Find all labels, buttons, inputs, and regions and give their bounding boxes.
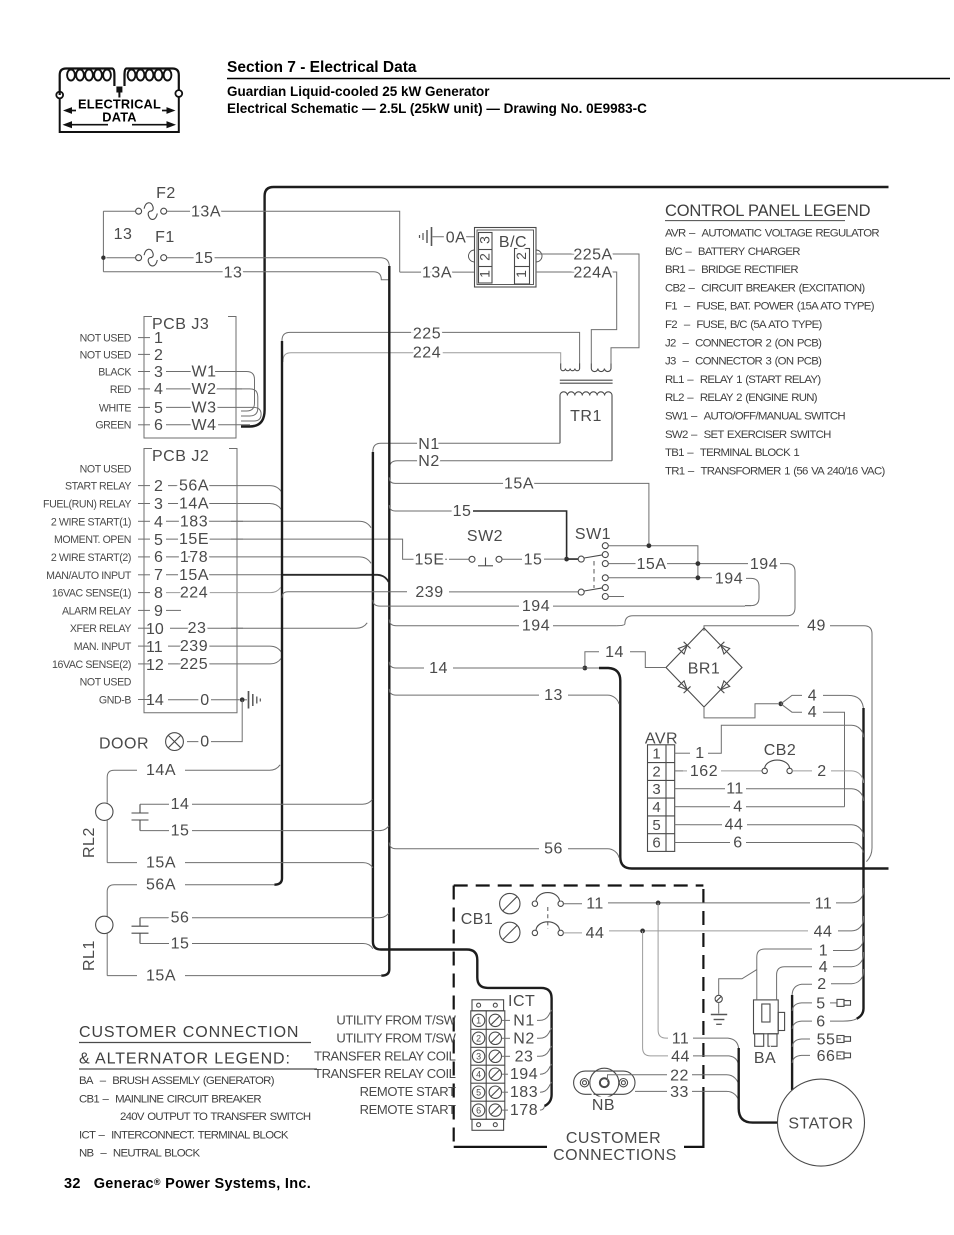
svg-text:WHITE: WHITE xyxy=(99,402,131,414)
svg-text:6: 6 xyxy=(652,835,660,852)
svg-text:F1: F1 xyxy=(155,229,175,246)
wire 15E to SW2 xyxy=(410,558,447,560)
B/C connector 12 xyxy=(515,249,530,285)
wire W4 xyxy=(166,424,250,426)
wire 239 row xyxy=(282,592,407,598)
svg-text:CONNECTIONS: CONNECTIONS xyxy=(553,1147,677,1164)
svg-text:13: 13 xyxy=(224,265,243,282)
svg-text:3: 3 xyxy=(477,236,493,244)
svg-text:N2: N2 xyxy=(513,1030,534,1047)
svg-text:16VAC SENSE(2): 16VAC SENSE(2) xyxy=(52,659,131,671)
svg-text:CB2 – CIRCUIT BREAKER (EXCITA: CB2 – CIRCUIT BREAKER (EXCITATION) xyxy=(665,282,865,294)
svg-text:225: 225 xyxy=(180,656,208,673)
svg-text:15: 15 xyxy=(524,551,543,568)
svg-text:TR1: TR1 xyxy=(570,408,602,425)
svg-text:STATOR: STATOR xyxy=(788,1116,853,1133)
svg-text:13: 13 xyxy=(544,687,563,704)
diode bottom-left xyxy=(678,680,691,693)
node 13 left vertical xyxy=(102,211,104,272)
wire 194 row a xyxy=(373,600,519,606)
ICT wire 178 xyxy=(502,1109,509,1111)
wire SW1 c6 stub xyxy=(608,596,624,598)
J3 pin ticks left xyxy=(138,338,242,425)
AVR connector block xyxy=(648,745,675,852)
svg-text:REMOTE START: REMOTE START xyxy=(360,1084,456,1099)
wire 13 row xyxy=(389,689,539,695)
wire 225A xyxy=(536,254,639,364)
svg-text:RL1 – RELAY 1 (START RELAY): RL1 – RELAY 1 (START RELAY) xyxy=(665,374,821,386)
svg-text:W1: W1 xyxy=(192,364,217,381)
wire 14 to BR1 xyxy=(630,652,666,668)
svg-text:183: 183 xyxy=(180,513,208,530)
SW1 dashed link xyxy=(593,561,595,588)
BR1 bottom path to dot xyxy=(704,704,778,718)
svg-text:3: 3 xyxy=(154,364,163,381)
svg-text:CB1 – MAINLINE CIRCUIT BREAKE: CB1 – MAINLINE CIRCUIT BREAKER xyxy=(79,1094,261,1106)
logo right coil xyxy=(125,69,179,91)
TR1 primary winding right xyxy=(591,364,611,372)
wire 183 J2 xyxy=(166,521,371,527)
svg-text:3: 3 xyxy=(652,781,660,798)
svg-text:N1: N1 xyxy=(513,1012,534,1029)
svg-text:2: 2 xyxy=(652,764,660,781)
svg-text:2: 2 xyxy=(154,478,163,495)
svg-text:44: 44 xyxy=(725,817,744,834)
svg-text:194: 194 xyxy=(750,556,778,573)
wire CB1 11 xyxy=(563,903,582,905)
svg-text:14: 14 xyxy=(605,644,624,661)
svg-text:BA: BA xyxy=(754,1050,776,1067)
wire 22 xyxy=(608,1075,668,1082)
wire 225 J2 xyxy=(168,659,281,664)
logo side verticals xyxy=(59,98,61,133)
bridge rectifier BR1 diamond xyxy=(666,628,742,707)
wire 15A upper row xyxy=(389,477,649,543)
svg-text:Section 7 - Electrical Data: Section 7 - Electrical Data xyxy=(227,59,417,76)
svg-text:55: 55 xyxy=(817,1032,836,1049)
RL2 contact symbol xyxy=(132,804,149,830)
svg-text:0A: 0A xyxy=(446,229,467,246)
TR1 core xyxy=(560,379,613,381)
svg-text:4: 4 xyxy=(808,687,817,704)
svg-text:224: 224 xyxy=(180,585,208,602)
svg-text:14: 14 xyxy=(146,692,164,709)
svg-text:56: 56 xyxy=(171,910,190,927)
wire AVR4 4 xyxy=(690,806,730,808)
wire RL1 15A xyxy=(107,975,137,977)
svg-text:6: 6 xyxy=(733,835,742,852)
svg-text:2 WIRE START(1): 2 WIRE START(1) xyxy=(51,516,131,528)
ICT wire 23 xyxy=(502,1055,511,1057)
svg-text:& ALTERNATOR LEGEND:: & ALTERNATOR LEGEND: xyxy=(79,1051,291,1068)
wire 194 row b xyxy=(389,620,519,626)
svg-text:23: 23 xyxy=(515,1048,534,1065)
svg-text:SW1 – AUTO/OFF/MANUAL SWITCH: SW1 – AUTO/OFF/MANUAL SWITCH xyxy=(665,411,845,423)
header rule xyxy=(227,78,950,80)
svg-text:SW2: SW2 xyxy=(467,528,503,545)
svg-text:2: 2 xyxy=(477,253,493,261)
svg-text:NOT USED: NOT USED xyxy=(80,464,132,476)
wire N1 xyxy=(373,443,560,453)
svg-text:4: 4 xyxy=(154,381,163,398)
svg-text:MAN/AUTO INPUT: MAN/AUTO INPUT xyxy=(46,570,132,582)
svg-text:W4: W4 xyxy=(192,417,217,434)
svg-text:NOT USED: NOT USED xyxy=(80,333,132,345)
wire RL2 15A xyxy=(107,862,137,864)
svg-text:Electrical Schematic — 2.5L (2: Electrical Schematic — 2.5L (25kW unit) … xyxy=(227,101,647,116)
svg-text:3: 3 xyxy=(154,496,163,513)
ICT wire N1 xyxy=(502,1019,511,1021)
wire 14 into bundle (thick start) xyxy=(586,667,601,669)
svg-text:178: 178 xyxy=(180,549,208,566)
svg-text:225: 225 xyxy=(413,326,441,343)
wire RL2 14 xyxy=(140,803,169,805)
svg-text:11: 11 xyxy=(146,639,163,656)
CB1 pole 1 xyxy=(500,893,564,914)
svg-text:MAN. INPUT: MAN. INPUT xyxy=(74,641,132,653)
stator bundle vertical xyxy=(791,995,793,1090)
wire 44 down xyxy=(643,931,668,1056)
switch SW2 xyxy=(469,556,502,566)
svg-text:1: 1 xyxy=(513,270,529,278)
wire AVR6 6 xyxy=(690,842,730,844)
wire 224A xyxy=(536,272,617,364)
svg-text:1: 1 xyxy=(695,745,704,762)
svg-text:5: 5 xyxy=(154,400,163,417)
wire CB1 44 xyxy=(563,932,582,934)
svg-text:AVR – AUTOMATIC VOLTAGE REGUL: AVR – AUTOMATIC VOLTAGE REGULATOR xyxy=(665,228,879,240)
svg-text:6: 6 xyxy=(816,1014,825,1031)
svg-text:194: 194 xyxy=(522,598,550,615)
ground link to brush xyxy=(719,970,757,996)
diode bottom-right xyxy=(717,680,730,693)
svg-text:GND-B: GND-B xyxy=(99,695,131,707)
wire 0A to B/C xyxy=(433,236,475,238)
svg-text:DATA: DATA xyxy=(102,110,136,125)
svg-text:15A: 15A xyxy=(146,968,176,985)
svg-text:6: 6 xyxy=(476,1105,481,1115)
bundle vertical 372.9 from N1 xyxy=(373,452,460,950)
svg-text:BR1 – BRIDGE RECTIFIER: BR1 – BRIDGE RECTIFIER xyxy=(665,264,798,276)
wire 23 J2 xyxy=(170,623,367,628)
wire 15 from F1 into bundle xyxy=(167,258,390,270)
wire 11 down xyxy=(658,903,668,1038)
svg-text:RL2 – RELAY 2 (ENGINE RUN): RL2 – RELAY 2 (ENGINE RUN) xyxy=(665,392,818,404)
logo terminal circles xyxy=(56,92,63,99)
wire AVR1 path over CB2 xyxy=(708,725,864,753)
wire W1 xyxy=(166,372,255,412)
svg-text:2: 2 xyxy=(817,976,826,993)
svg-text:NOT USED: NOT USED xyxy=(80,677,132,689)
svg-text:SW2 – SET EXERCISER SWITCH: SW2 – SET EXERCISER SWITCH xyxy=(665,429,831,441)
svg-text:4: 4 xyxy=(808,704,817,721)
svg-text:F2: F2 xyxy=(156,185,176,202)
wire 2 xyxy=(792,984,812,995)
wire 6 xyxy=(792,1021,812,1029)
logo bottom bar xyxy=(60,131,179,133)
wire W2 xyxy=(166,389,258,416)
wire 56A J2 xyxy=(168,486,282,492)
TR1 secondary box xyxy=(560,392,612,461)
neutral block NB xyxy=(574,1068,635,1097)
svg-text:ICT: ICT xyxy=(508,993,535,1010)
svg-text:W2: W2 xyxy=(192,381,217,398)
svg-text:6: 6 xyxy=(154,549,163,566)
svg-text:CB2: CB2 xyxy=(764,742,797,759)
wire pin9 stub xyxy=(166,609,181,611)
wire door 0 to gnd xyxy=(187,700,242,742)
svg-text:11: 11 xyxy=(586,896,604,913)
svg-text:RED: RED xyxy=(110,384,132,396)
svg-text:239: 239 xyxy=(180,638,208,655)
wire RL1 56 xyxy=(140,917,169,919)
svg-text:14: 14 xyxy=(429,660,448,677)
SW1 contacts xyxy=(602,543,608,600)
wire 1 from BA xyxy=(757,949,812,1000)
wire 4 lower xyxy=(781,704,802,712)
svg-text:44: 44 xyxy=(814,923,833,940)
svg-text:0: 0 xyxy=(200,692,209,709)
wire SW1 c1 row xyxy=(608,546,698,578)
logo center junction dot xyxy=(116,87,122,93)
svg-text:56: 56 xyxy=(544,841,563,858)
svg-text:194: 194 xyxy=(522,618,550,635)
wire SW1 c4 194 row xyxy=(608,577,712,579)
svg-text:22: 22 xyxy=(670,1067,689,1084)
svg-text:N2: N2 xyxy=(418,453,439,470)
wire 178 J2 xyxy=(166,557,371,563)
svg-text:224: 224 xyxy=(413,345,441,362)
svg-text:44: 44 xyxy=(586,925,605,942)
wire 225 row xyxy=(282,332,580,364)
svg-text:ALARM RELAY: ALARM RELAY xyxy=(62,605,131,617)
svg-text:RL2: RL2 xyxy=(81,827,98,858)
wire 14A row xyxy=(107,770,137,803)
wire RL2 15 xyxy=(140,830,169,832)
wire SW2 to 15 xyxy=(502,558,522,560)
svg-text:NB: NB xyxy=(592,1097,615,1114)
harness to ICT xyxy=(460,950,552,1107)
svg-text:66: 66 xyxy=(817,1048,836,1065)
relay RL2 coil circle xyxy=(96,803,113,820)
svg-text:11: 11 xyxy=(726,781,744,798)
svg-text:TR1 – TRANSFORMER 1 (56 VA 24: TR1 – TRANSFORMER 1 (56 VA 240/16 VAC) xyxy=(665,465,885,477)
logo lower double arrow xyxy=(66,124,108,126)
ICT screws xyxy=(489,1014,501,1116)
svg-text:TRANSFER RELAY COIL: TRANSFER RELAY COIL xyxy=(314,1066,456,1081)
svg-text:13A: 13A xyxy=(422,265,452,282)
svg-text:2: 2 xyxy=(154,347,163,364)
wire RL1 15 xyxy=(140,943,169,945)
svg-text:15: 15 xyxy=(453,503,472,520)
wire W3 xyxy=(166,407,261,421)
svg-text:5: 5 xyxy=(476,1087,481,1097)
wire 5 xyxy=(792,1003,812,1011)
svg-text:J3 – CONNECTOR 3 (ON PCB): J3 – CONNECTOR 3 (ON PCB) xyxy=(665,356,822,368)
svg-text:15A: 15A xyxy=(146,855,176,872)
wire 15A J2 xyxy=(166,574,282,576)
svg-text:CUSTOMER CONNECTION: CUSTOMER CONNECTION xyxy=(79,1024,299,1041)
bundle vertical 282 xyxy=(274,341,282,885)
svg-text:12: 12 xyxy=(146,657,164,674)
svg-text:183: 183 xyxy=(510,1084,538,1101)
wire 4 upper xyxy=(781,695,802,703)
svg-text:8: 8 xyxy=(154,585,163,602)
svg-text:4: 4 xyxy=(476,1069,481,1079)
svg-text:UTILITY FROM T/SW: UTILITY FROM T/SW xyxy=(336,1030,456,1045)
svg-text:F2 – FUSE, B/C (5A ATO TYPE): F2 – FUSE, B/C (5A ATO TYPE) xyxy=(665,319,823,331)
svg-text:MOMENT. OPEN: MOMENT. OPEN xyxy=(54,534,131,546)
CB1 dashed link xyxy=(547,907,549,929)
svg-text:13: 13 xyxy=(114,226,133,243)
wire F2 left xyxy=(103,210,135,212)
wire SW1 c3 15A 194 row xyxy=(608,563,637,565)
svg-text:10: 10 xyxy=(146,621,164,638)
fuse F2 xyxy=(136,203,167,220)
svg-text:SW1: SW1 xyxy=(575,526,611,543)
svg-text:56A: 56A xyxy=(146,877,176,894)
J2 pin numbers xyxy=(146,478,164,709)
svg-text:23: 23 xyxy=(188,620,207,637)
svg-text:1: 1 xyxy=(819,943,828,960)
J2 pin ticks xyxy=(138,486,243,700)
svg-text:11: 11 xyxy=(672,1031,690,1048)
svg-text:15A: 15A xyxy=(504,475,534,492)
svg-text:14A: 14A xyxy=(146,762,176,779)
SW1 pole 2 xyxy=(578,589,584,595)
wire 14 row xyxy=(389,662,424,668)
svg-text:224A: 224A xyxy=(573,265,612,282)
svg-text:1: 1 xyxy=(652,746,660,763)
svg-text:J2 – CONNECTOR 2 (ON PCB): J2 – CONNECTOR 2 (ON PCB) xyxy=(665,337,822,349)
ground screw near BA xyxy=(715,995,722,1002)
stator circle xyxy=(778,1079,865,1166)
svg-text:7: 7 xyxy=(154,567,163,584)
svg-text:15E: 15E xyxy=(179,531,209,548)
svg-text:CONTROL PANEL LEGEND: CONTROL PANEL LEGEND xyxy=(665,202,871,220)
svg-text:49: 49 xyxy=(807,618,826,635)
fuse F1 xyxy=(136,249,167,266)
J3 pin numbers xyxy=(154,330,163,434)
svg-text:4: 4 xyxy=(154,514,163,531)
svg-text:CUSTOMER: CUSTOMER xyxy=(566,1130,661,1147)
wire AVR5 44 xyxy=(690,824,722,826)
svg-text:6: 6 xyxy=(154,417,163,434)
wire N2 xyxy=(389,461,612,470)
right thick bundle vertical xyxy=(857,708,864,1019)
thick harness to stator xyxy=(739,1048,778,1123)
bus B1 end curl xyxy=(241,410,265,427)
wire 49 xyxy=(704,626,799,631)
svg-text:2: 2 xyxy=(513,252,529,260)
wire F1 left xyxy=(106,257,135,259)
dashed customer box xyxy=(454,886,704,1147)
svg-text:RL1: RL1 xyxy=(81,940,98,971)
svg-text:194: 194 xyxy=(510,1066,538,1083)
wire 162 to CB2 xyxy=(683,770,687,772)
svg-text:9: 9 xyxy=(154,603,163,620)
svg-text:2: 2 xyxy=(817,763,826,780)
svg-text:15: 15 xyxy=(171,823,190,840)
brush assembly BA xyxy=(754,1000,785,1046)
svg-text:4: 4 xyxy=(733,799,742,816)
wire 15E J2 xyxy=(166,539,410,559)
thick top bus line xyxy=(265,187,889,410)
svg-text:0: 0 xyxy=(200,734,209,751)
svg-text:162: 162 xyxy=(690,763,718,780)
svg-text:GREEN: GREEN xyxy=(95,420,131,432)
RL1 contact symbol xyxy=(132,918,149,944)
ground for 0A xyxy=(420,227,432,246)
svg-text:2 WIRE START(2): 2 WIRE START(2) xyxy=(51,552,131,564)
relay RL1 coil circle xyxy=(96,916,113,933)
TR1 primary winding left xyxy=(561,364,580,371)
svg-text:F1 – FUSE, BAT. POWER (15A A: F1 – FUSE, BAT. POWER (15A ATO TYPE) xyxy=(665,301,875,313)
svg-text:3: 3 xyxy=(476,1052,481,1062)
B/C battery charger box xyxy=(469,228,543,288)
svg-text:FUEL(RUN) RELAY: FUEL(RUN) RELAY xyxy=(43,499,131,511)
svg-text:194: 194 xyxy=(715,570,743,587)
wire 224 J2 xyxy=(166,587,281,592)
logo left coil xyxy=(60,69,115,96)
ground symbol BA xyxy=(711,1015,727,1025)
wire 224 row xyxy=(283,353,561,364)
svg-text:178: 178 xyxy=(510,1102,538,1119)
wire 33 xyxy=(635,1090,667,1092)
junction dot gnd xyxy=(240,697,245,702)
svg-text:B/C: B/C xyxy=(499,234,527,251)
svg-text:CB1: CB1 xyxy=(461,911,494,928)
svg-text:BLACK: BLACK xyxy=(98,366,131,378)
svg-text:Guardian Liquid-cooled 25 kW G: Guardian Liquid-cooled 25 kW Generator xyxy=(227,84,490,99)
logo upper arrows xyxy=(66,110,76,112)
svg-text:33: 33 xyxy=(670,1084,689,1101)
wire 66 xyxy=(792,1055,810,1063)
wire 13A to B/C xyxy=(400,271,475,273)
svg-text:1: 1 xyxy=(154,330,163,347)
wire 14A J2 xyxy=(168,504,282,511)
svg-text:TB1 – TERMINAL BLOCK 1: TB1 – TERMINAL BLOCK 1 xyxy=(665,447,799,459)
svg-text:BR1: BR1 xyxy=(688,661,721,678)
svg-text:15: 15 xyxy=(171,936,190,953)
wire 4 from BA xyxy=(777,967,812,1000)
svg-text:W3: W3 xyxy=(192,399,217,416)
svg-text:TRANSFER RELAY COIL: TRANSFER RELAY COIL xyxy=(314,1048,456,1063)
svg-text:14A: 14A xyxy=(179,496,209,513)
svg-text:4: 4 xyxy=(652,799,660,816)
ground symbol GND-B xyxy=(249,691,261,709)
svg-text:2: 2 xyxy=(476,1034,481,1044)
wire 56A row xyxy=(107,885,137,917)
svg-text:239: 239 xyxy=(415,584,443,601)
svg-text:1: 1 xyxy=(476,1016,481,1026)
ICT numbered terminals xyxy=(472,1014,484,1116)
wire 239 J2 xyxy=(168,646,282,652)
svg-text:15A: 15A xyxy=(179,567,209,584)
svg-text:44: 44 xyxy=(671,1048,690,1065)
diode top-left xyxy=(678,642,691,655)
svg-text:NB – NEUTRAL BLOCK: NB – NEUTRAL BLOCK xyxy=(79,1148,200,1160)
svg-text:NOT USED: NOT USED xyxy=(80,349,132,361)
svg-text:56A: 56A xyxy=(179,478,209,495)
svg-text:4: 4 xyxy=(819,959,828,976)
svg-text:START RELAY: START RELAY xyxy=(65,481,131,493)
bundle vertical 389.3 from F1-15 xyxy=(381,266,389,976)
svg-text:32 Generac® Power Systems, I: 32 Generac® Power Systems, Inc. xyxy=(64,1176,311,1192)
B/C connector 123 xyxy=(479,233,493,284)
svg-text:ICT – INTERCONNECT. TERMINAL: ICT – INTERCONNECT. TERMINAL BLOCK xyxy=(79,1130,289,1142)
svg-text:14: 14 xyxy=(171,796,190,813)
